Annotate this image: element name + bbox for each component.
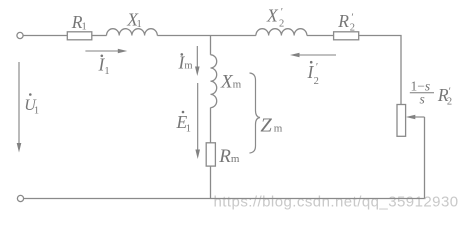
svg-text:R′2: R′2 <box>337 11 355 34</box>
svg-text:s: s <box>420 92 425 107</box>
resistor R1 <box>67 32 92 40</box>
inductor Xm <box>211 55 217 108</box>
label Im with dot <box>181 53 184 56</box>
brace Zm <box>250 73 261 153</box>
svg-text:https://blog.csdn.net/qq_35912: https://blog.csdn.net/qq_35912930 <box>214 194 459 211</box>
svg-text:Xm: Xm <box>220 72 242 93</box>
wiper wire down right side <box>424 117 426 199</box>
terminal bottom-left <box>17 195 23 201</box>
current arrow Im <box>196 46 198 69</box>
resistor Rm <box>206 143 215 166</box>
load resistor (1-s)/s R'2 <box>397 105 406 137</box>
wire X1 to X'2 through node <box>157 35 256 37</box>
svg-text:R1: R1 <box>71 12 87 33</box>
inductor X'2 <box>256 29 307 36</box>
wire Rm to bottom <box>210 166 212 198</box>
bottom wire <box>24 198 425 200</box>
svg-text:I1: I1 <box>98 55 110 77</box>
terminal top-left <box>17 32 23 38</box>
svg-text:I′2: I′2 <box>307 62 319 87</box>
svg-text:X1: X1 <box>126 10 141 31</box>
current arrow I'2 <box>298 54 336 56</box>
label U1 with dot <box>29 93 32 96</box>
wire Xm to Rm <box>210 108 212 143</box>
current arrow I1 <box>85 50 119 52</box>
emf arrow E1 <box>197 83 199 152</box>
magnetizing branch wire top <box>210 36 212 55</box>
svg-text:E1: E1 <box>176 112 191 134</box>
wire top-left <box>23 35 67 37</box>
svg-text:X′2: X′2 <box>266 6 284 30</box>
voltage arrow U1 <box>18 62 20 145</box>
label I'2 with dot <box>310 61 313 64</box>
wiper arrow of load resistor <box>414 116 425 118</box>
wire R1 to X1 <box>92 35 107 37</box>
label E1 with dot <box>182 111 185 114</box>
svg-text:R′2: R′2 <box>437 85 452 108</box>
label I1 with dot <box>101 55 104 58</box>
wire X'2 to R'2 <box>307 35 334 37</box>
svg-text:Rm: Rm <box>218 146 240 167</box>
svg-text:Im: Im <box>178 53 193 73</box>
inductor X1 <box>107 29 158 36</box>
svg-text:Zm: Zm <box>260 114 282 136</box>
wire R'2 to corner and down <box>359 36 401 105</box>
resistor R'2 <box>334 32 359 40</box>
svg-text:U1: U1 <box>24 97 39 116</box>
